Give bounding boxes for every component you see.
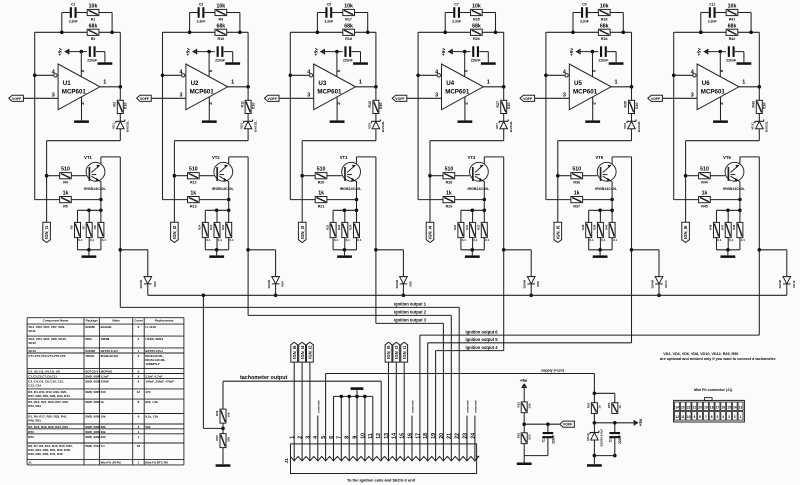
resistor R43 510 xyxy=(756,100,762,113)
+5v supply arrow xyxy=(192,49,195,53)
svg-text:220nF: 220nF xyxy=(551,435,555,444)
node collector junction xyxy=(502,248,506,252)
wire feedback top branch U5 xyxy=(573,12,582,14)
svg-text:2: 2 xyxy=(591,102,596,105)
resistor R51 10k xyxy=(521,402,527,413)
svg-text:SMD_0805: SMD_0805 xyxy=(85,400,100,404)
resistor R29 1k xyxy=(443,197,455,203)
ground xyxy=(202,120,217,123)
svg-text:10: 10 xyxy=(687,415,691,419)
svg-text:J1: J1 xyxy=(28,460,32,464)
svg-text:68k: 68k xyxy=(728,23,737,29)
svg-text:SM4M: SM4M xyxy=(395,279,399,288)
svg-text:20: 20 xyxy=(698,405,702,409)
svg-text:1: 1 xyxy=(742,79,745,85)
node gate junction xyxy=(556,174,560,178)
svg-text:10k: 10k xyxy=(600,4,609,10)
wire reserved pin 16 xyxy=(411,416,413,461)
svg-text:0,1: 0,1 xyxy=(230,238,235,242)
svg-text:3: 3 xyxy=(563,93,566,99)
wire IGN_I4 to pin 2 xyxy=(301,362,303,461)
node feedback-left junction xyxy=(443,31,447,35)
wire emitter down xyxy=(739,181,741,210)
node zener junction xyxy=(593,421,597,425)
net label IGN_I2 xyxy=(307,342,314,362)
capacitor C6 220nF xyxy=(344,46,346,57)
wire IGN_I2 to pin 3 xyxy=(309,362,311,461)
Mini Fit cell pin 10 xyxy=(686,412,691,421)
resistor R45 1k xyxy=(699,197,711,203)
svg-text:R21: R21 xyxy=(318,204,325,208)
svg-text:10k: 10k xyxy=(101,415,106,419)
svg-text:C14: C14 xyxy=(608,436,612,442)
node feedback-left junction xyxy=(571,31,575,35)
wire +5v to op-amp pin 5 xyxy=(576,51,598,53)
svg-text:0,1: 0,1 xyxy=(590,238,595,242)
Mini Fit cell pin 20 xyxy=(698,402,703,411)
wire R51 to VOFF node xyxy=(523,413,525,433)
svg-text:1: 1 xyxy=(487,79,490,85)
wire op-amp pin 3 xyxy=(407,97,442,99)
wire inverting-input rail xyxy=(673,32,675,199)
svg-text:VD5: VD5 xyxy=(367,123,371,129)
svg-text:4: 4 xyxy=(313,436,319,439)
wire op-amp output pin 1 xyxy=(228,86,248,88)
svg-text:R18: R18 xyxy=(345,37,352,41)
svg-text:R6: R6 xyxy=(70,225,74,229)
resistor R23 0,1 xyxy=(344,210,346,222)
Mini Fit cell pin 23 xyxy=(680,402,685,411)
svg-text:4: 4 xyxy=(52,69,55,75)
svg-text:5: 5 xyxy=(464,69,469,72)
svg-text:VT4: VT4 xyxy=(468,155,476,160)
svg-text:+5v: +5v xyxy=(58,48,64,56)
wire tachometer output xyxy=(223,380,381,382)
svg-text:Mini Fit RTC-RA: Mini Fit RTC-RA xyxy=(145,460,169,464)
node pin5 junction xyxy=(719,50,723,54)
wire pin 10 xyxy=(364,396,366,461)
wire inverting-input rail xyxy=(162,32,164,199)
wire inverting-input rail xyxy=(34,32,36,199)
svg-text:BAS32L: BAS32L xyxy=(126,121,130,133)
svg-text:Count: Count xyxy=(134,319,143,323)
wire feedback mid branch xyxy=(163,31,216,33)
wire reserved pin 23 xyxy=(466,416,468,461)
svg-text:8: 8 xyxy=(345,436,351,439)
svg-text:0,1: 0,1 xyxy=(206,238,211,242)
svg-text:VT2: VT2 xyxy=(212,155,220,160)
node emitter junction xyxy=(227,198,231,202)
node feedback-left junction xyxy=(60,31,64,35)
wire collector to VD branch xyxy=(376,249,404,251)
wire feedback top branch U3 xyxy=(317,12,326,14)
svg-text:MCP601: MCP601 xyxy=(573,88,598,95)
node gate junction xyxy=(45,174,49,178)
wire collector down to output bus xyxy=(247,157,249,316)
node pin4 junction xyxy=(672,74,676,78)
svg-text:MCP601: MCP601 xyxy=(190,88,215,95)
ground xyxy=(458,120,473,123)
+5v supply arrow xyxy=(576,49,579,53)
svg-text:10N88TLZ: 10N88TLZ xyxy=(145,362,160,366)
node output junction xyxy=(758,85,762,89)
node pin4 junction xyxy=(161,74,165,78)
resistor R33 10k xyxy=(598,9,610,15)
svg-text:4: 4 xyxy=(563,69,566,75)
net label VOFF input xyxy=(137,95,152,101)
svg-text:22: 22 xyxy=(687,405,691,409)
svg-text:1: 1 xyxy=(740,415,742,419)
node C14 junction xyxy=(613,421,617,425)
diode VD1 BAS32L xyxy=(116,120,125,122)
wire sense bottom bus xyxy=(78,249,101,251)
Mini Fit cell pin 19 xyxy=(704,402,709,411)
svg-text:1k: 1k xyxy=(618,405,622,409)
transistor VT4 IRGB14C40L xyxy=(470,162,489,181)
svg-text:R33: R33 xyxy=(601,17,608,21)
Mini Fit cell pin 22 xyxy=(686,402,691,411)
wire output to R3 xyxy=(503,87,505,101)
wire op-amp pin 2 xyxy=(720,97,722,121)
svg-text:SMD_0805: SMD_0805 xyxy=(85,425,100,429)
svg-text:IGN_I4: IGN_I4 xyxy=(428,225,433,239)
wire R3 to VD1 xyxy=(758,114,760,122)
wire feedback mid branch xyxy=(546,31,599,33)
svg-text:4: 4 xyxy=(722,415,724,419)
wire VD to tachometer bus xyxy=(786,284,788,295)
node pin 8 junction xyxy=(347,395,351,399)
svg-text:10k: 10k xyxy=(89,4,98,10)
wire output to R3 xyxy=(758,87,760,101)
wire op-amp pin 2 xyxy=(81,97,83,121)
svg-text:30k: 30k xyxy=(226,437,230,442)
wire ignition output 3 xyxy=(376,322,444,324)
svg-text:510: 510 xyxy=(317,167,326,173)
svg-text:220nF: 220nF xyxy=(598,59,608,63)
resistor R26 68k xyxy=(471,29,483,35)
node pin 9 junction xyxy=(355,395,359,399)
svg-text:SMD_0805: SMD_0805 xyxy=(85,390,100,394)
wire collector down to output bus xyxy=(375,157,377,324)
Mini Fit cell pin 17 xyxy=(715,402,720,411)
resistor R1 10k xyxy=(87,9,99,15)
svg-text:R42: R42 xyxy=(729,37,736,41)
capacitor C5 3,3nF xyxy=(325,7,327,18)
svg-text:5: 5 xyxy=(591,69,596,72)
svg-text:24: 24 xyxy=(675,405,679,409)
svg-text:VD11: VD11 xyxy=(28,329,36,333)
svg-text:23: 23 xyxy=(462,433,468,439)
svg-text:IRGB14C40L: IRGB14C40L xyxy=(101,354,119,358)
wire gate node to R4 xyxy=(430,175,443,177)
node gate junction xyxy=(300,174,304,178)
node sense ground junction xyxy=(598,248,602,252)
svg-text:R2: R2 xyxy=(91,37,96,41)
wire emitter down xyxy=(100,181,102,210)
svg-text:21: 21 xyxy=(447,433,453,439)
svg-text:U4: U4 xyxy=(446,80,454,87)
resistor R34 68k xyxy=(598,29,610,35)
wire op-amp pin 4 xyxy=(163,74,182,76)
svg-text:BAS32L: BAS32L xyxy=(253,121,257,133)
wire sense bottom bus xyxy=(589,249,612,251)
svg-text:13: 13 xyxy=(384,433,390,439)
capacitor C1 3,3nF xyxy=(70,7,72,18)
diode VD7 BAS32L xyxy=(499,120,508,122)
svg-text:0,1: 0,1 xyxy=(346,238,351,242)
node tachometer bus junction xyxy=(529,294,533,298)
node sense ground junction xyxy=(343,248,347,252)
svg-text:0,1: 0,1 xyxy=(473,238,478,242)
svg-text:510: 510 xyxy=(123,102,128,109)
svg-text:2: 2 xyxy=(464,102,469,105)
wire sense top bus xyxy=(589,209,612,211)
svg-text:reserved: reserved xyxy=(411,400,415,413)
svg-text:SM4M: SM4M xyxy=(778,279,782,288)
svg-text:1k: 1k xyxy=(190,191,196,197)
zener diode VD13 BZV55-C4v7 xyxy=(590,432,599,434)
svg-text:0,1: 0,1 xyxy=(485,238,490,242)
wire +5v to op-amp pin 5 xyxy=(192,51,214,53)
resistor R3 510 xyxy=(117,100,123,113)
svg-text:2: 2 xyxy=(80,102,85,105)
wire ignition output 2 xyxy=(248,314,451,316)
resistor R18 68k xyxy=(343,29,355,35)
svg-text:R27, R28, R35, R36, R43, R44: R27, R28, R35, R36, R43, R44 xyxy=(28,394,70,398)
wire IGN_I5 to pin 13 xyxy=(388,362,390,461)
wire feedback mid branch xyxy=(674,31,727,33)
wire op-amp pin 5 xyxy=(592,52,594,77)
svg-text:20: 20 xyxy=(439,433,445,439)
wire C2 to ground xyxy=(743,52,745,63)
net label IGN_I3 xyxy=(298,222,306,242)
node collector junction xyxy=(630,248,634,252)
net label IGN_I5 xyxy=(385,342,392,362)
node pin5 junction xyxy=(591,50,595,54)
svg-text:IRGB14C40L: IRGB14C40L xyxy=(84,187,107,191)
wire R3 to VD1 xyxy=(631,114,633,122)
wire inverting-input rail xyxy=(417,32,419,199)
wire C2 to ground xyxy=(360,52,362,63)
wire gate node to R4 xyxy=(686,175,699,177)
diode VD11 BAS32L xyxy=(755,120,764,122)
ground xyxy=(74,120,89,123)
svg-text:VT1: VT1 xyxy=(84,155,92,160)
Mini Fit cell pin 13 xyxy=(738,402,743,411)
ground xyxy=(481,62,496,65)
node feedback-right junction xyxy=(494,31,498,35)
svg-text:R40: R40 xyxy=(604,224,608,230)
Mini Fit cell pin 9 xyxy=(692,412,697,421)
svg-text:R1: R1 xyxy=(91,17,96,21)
resistor R46 0,1 xyxy=(716,210,718,222)
svg-text:3: 3 xyxy=(180,93,183,99)
svg-text:R52: R52 xyxy=(28,435,34,439)
svg-text:5: 5 xyxy=(719,69,724,72)
svg-text:1: 1 xyxy=(359,79,362,85)
wire collector to VD branch xyxy=(759,249,787,251)
svg-text:VD4: VD4 xyxy=(281,281,285,287)
wire +5v to op-amp pin 5 xyxy=(320,51,342,53)
svg-text:VD2: VD2 xyxy=(153,281,157,287)
svg-text:BAS32L: BAS32L xyxy=(509,121,513,133)
ground xyxy=(209,255,224,258)
node pin4 junction xyxy=(33,74,37,78)
svg-text:3: 3 xyxy=(305,436,311,439)
wire gate node to R4 xyxy=(302,175,315,177)
svg-text:R38: R38 xyxy=(581,224,585,230)
wire collector down to output bus xyxy=(631,157,633,343)
svg-text:4: 4 xyxy=(307,69,310,75)
resistor R42 68k xyxy=(726,29,738,35)
node tachometer bus junction xyxy=(274,294,278,298)
Mini Fit cell pin 11 xyxy=(680,412,685,421)
resistor R2 68k xyxy=(87,29,99,35)
wire VD to tachometer bus xyxy=(147,284,149,295)
svg-text:68k: 68k xyxy=(89,23,98,29)
wire tachometer bus xyxy=(148,294,787,296)
wire sense bottom bus xyxy=(717,249,740,251)
wire inverting-input rail xyxy=(289,32,291,199)
wire R4 to gate xyxy=(710,175,725,177)
svg-text:R49, R51: R49, R51 xyxy=(28,419,41,423)
svg-text:VOFF: VOFF xyxy=(523,97,533,101)
net label IGN_I1 xyxy=(401,342,408,362)
wire op-amp pin 4 xyxy=(546,74,565,76)
wire op-amp pin 4 xyxy=(674,74,693,76)
ground xyxy=(585,120,600,123)
svg-text:3: 3 xyxy=(691,93,694,99)
resistor R20 510 xyxy=(315,173,327,179)
svg-text:0,1: 0,1 xyxy=(102,238,107,242)
svg-text:R39, R40, R46, R47, R48: R39, R40, R46, R47, R48 xyxy=(28,452,63,456)
svg-text:R19: R19 xyxy=(368,101,372,108)
svg-text:ignition output 1: ignition output 1 xyxy=(394,302,427,307)
Mini Fit cell pin 8 xyxy=(698,412,703,421)
wire rail to R5 xyxy=(546,199,571,201)
svg-text:R50: R50 xyxy=(215,435,219,441)
capacitor C13 220nF xyxy=(547,424,549,433)
ground xyxy=(330,120,345,123)
transistor VT1 IRGB14C40L xyxy=(86,162,105,181)
svg-text:+5v: +5v xyxy=(569,48,575,56)
svg-text:C9: C9 xyxy=(582,3,586,7)
svg-text:R5: R5 xyxy=(63,204,68,208)
svg-text:VD7: VD7 xyxy=(495,123,499,129)
node pin5 junction xyxy=(80,50,84,54)
node collector junction xyxy=(119,248,123,252)
svg-text:68k: 68k xyxy=(101,425,106,429)
svg-text:R37: R37 xyxy=(573,204,580,208)
wire collector to VD branch xyxy=(632,249,660,251)
resistor R6 0,1 xyxy=(77,210,79,222)
resistor R30 0,1 xyxy=(460,210,462,222)
capacitor C4 220nF xyxy=(217,46,219,57)
resistor R7 0,1 xyxy=(88,210,90,222)
svg-text:22: 22 xyxy=(455,433,461,439)
wire R3 to VD1 xyxy=(119,114,121,122)
wire gate node to R4 xyxy=(47,175,60,177)
svg-text:15: 15 xyxy=(727,405,731,409)
svg-text:12: 12 xyxy=(137,390,141,394)
svg-text:220nF: 220nF xyxy=(343,59,353,63)
Mini Fit cell pin 1 xyxy=(738,412,743,421)
ground xyxy=(593,255,608,258)
wire op-amp output pin 1 xyxy=(100,86,120,88)
svg-text:R4: R4 xyxy=(63,181,68,185)
svg-text:BZV55-C4v7: BZV55-C4v7 xyxy=(600,429,604,447)
svg-text:510: 510 xyxy=(762,102,767,109)
resistor R50 30k xyxy=(222,423,224,434)
svg-text:BAS32L: BAS32L xyxy=(381,121,385,133)
net label IGN_I6 xyxy=(682,222,690,242)
wire emitter down xyxy=(611,181,613,210)
resistor R54 1k xyxy=(612,403,618,414)
ground xyxy=(216,464,231,467)
svg-text:MCP601: MCP601 xyxy=(445,88,470,95)
resistor R37 1k xyxy=(571,197,583,203)
wire gate node to R4 xyxy=(174,175,187,177)
wire op-amp pin 4 xyxy=(290,74,309,76)
wire pin 9 xyxy=(356,396,358,461)
svg-text:C13: C13 xyxy=(542,436,546,442)
capacitor C11 3,3nF xyxy=(709,7,711,18)
svg-text:IGN_I1: IGN_I1 xyxy=(44,225,49,239)
resistor R24 0,1 xyxy=(356,210,358,222)
svg-text:ignition output 5: ignition output 5 xyxy=(466,337,499,342)
node feedback-right junction xyxy=(622,31,626,35)
ground xyxy=(465,255,480,258)
resistor R10 68k xyxy=(215,29,227,35)
svg-text:5: 5 xyxy=(208,69,213,72)
svg-text:3: 3 xyxy=(728,415,730,419)
resistor R49 10k xyxy=(222,381,224,409)
svg-text:R15: R15 xyxy=(209,224,213,230)
resistor R21 1k xyxy=(315,197,327,203)
svg-text:2: 2 xyxy=(208,102,213,105)
node pin4 junction xyxy=(289,74,293,78)
svg-text:U2: U2 xyxy=(191,80,199,87)
svg-text:0,1: 0,1 xyxy=(90,238,95,242)
svg-text:R2, R10, R18, R26, R34, R42: R2, R10, R18, R26, R34, R42 xyxy=(28,425,68,429)
svg-text:R8: R8 xyxy=(93,225,97,229)
svg-text:5: 5 xyxy=(321,436,327,439)
node C13 junction xyxy=(546,422,550,426)
svg-text:10k: 10k xyxy=(344,4,353,10)
svg-text:510: 510 xyxy=(634,102,639,109)
diode VD4 SM4M xyxy=(271,276,279,278)
capacitor C14 220nF xyxy=(614,423,616,433)
svg-text:R12: R12 xyxy=(190,181,197,185)
svg-text:U6: U6 xyxy=(702,80,710,87)
wire feedback top branch U6 xyxy=(701,12,710,14)
svg-text:US1M, SM13: US1M, SM13 xyxy=(145,337,163,341)
svg-text:R11: R11 xyxy=(240,101,244,107)
capacitor C7 3,3nF xyxy=(453,7,455,18)
Mini Fit cell pin 15 xyxy=(727,402,732,411)
wire VD to tachometer bus xyxy=(275,284,277,295)
svg-text:3,3nF: 3,3nF xyxy=(324,20,333,24)
svg-text:2: 2 xyxy=(734,415,736,419)
wire VD to tachometer bus xyxy=(530,284,532,295)
node gate junction xyxy=(428,174,432,178)
svg-text:supply (+12v): supply (+12v) xyxy=(541,368,565,372)
svg-text:VT3: VT3 xyxy=(340,155,348,160)
svg-text:R52: R52 xyxy=(516,433,520,439)
net label IGN_I1 xyxy=(43,222,51,242)
diode VD5 BAS32L xyxy=(371,120,380,122)
resistor R11 510 xyxy=(245,100,251,113)
